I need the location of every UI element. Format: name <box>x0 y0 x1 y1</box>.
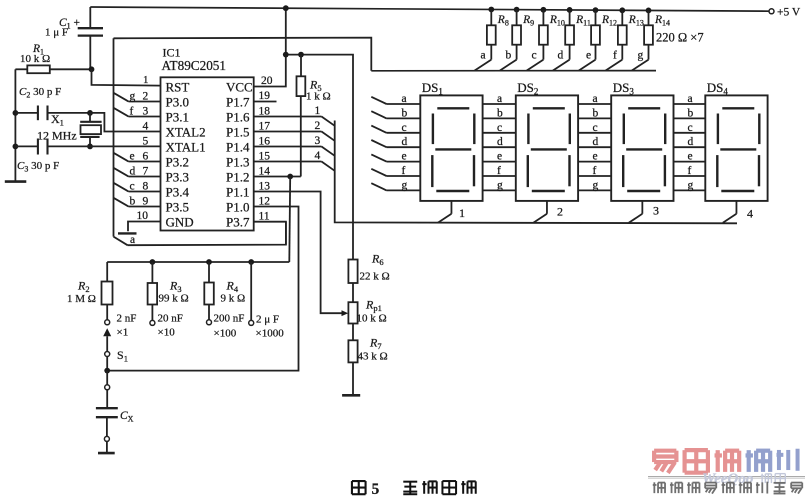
svg-text:5: 5 <box>372 481 380 498</box>
wire VCC drop from rail <box>285 8 287 54</box>
label pin 20 <box>261 75 273 87</box>
svg-text:12 MHz: 12 MHz <box>37 129 77 143</box>
display DS1 seven-segment glyph <box>432 108 474 191</box>
label IC pin name XTAL2 <box>166 124 206 139</box>
watermark char 维 <box>761 474 772 483</box>
svg-text:a: a <box>130 234 135 246</box>
watermark slogan char 和 <box>687 482 699 493</box>
wire P1.0 to S1 node <box>107 207 298 371</box>
svg-text:P3.5: P3.5 <box>166 199 189 214</box>
label 2 uF <box>256 314 279 326</box>
label IC pin name P1.1 <box>226 184 249 199</box>
wire digit 1 pin 18 <box>254 117 335 126</box>
node +5V terminal <box>769 9 774 14</box>
svg-text:12: 12 <box>259 195 271 207</box>
label DS3-DS4 segment d <box>688 136 694 148</box>
svg-text:3: 3 <box>653 204 659 218</box>
label DS1-DS2 segment a <box>497 93 502 105</box>
svg-text:e: e <box>130 150 135 162</box>
label DS4 <box>707 80 729 97</box>
label pin 17 <box>259 120 271 132</box>
svg-text:c: c <box>497 122 502 134</box>
node R10 rail junction <box>541 7 547 13</box>
label DS2-DS3 segment g <box>593 179 599 191</box>
wire DS1 segment c entry <box>371 126 420 133</box>
label 43 k-ohm <box>358 351 388 363</box>
label 22 k-ohm <box>360 271 390 283</box>
node S1 contact 2uF <box>249 320 254 325</box>
wire DS2 common <box>533 201 547 223</box>
watermark slogan char 计 <box>756 482 767 494</box>
label R12 <box>601 14 617 28</box>
wire digit 4 pin 15 <box>254 162 335 171</box>
watermark char 库 <box>775 474 785 484</box>
svg-text:C2 30 p F: C2 30 p F <box>19 86 61 100</box>
svg-text:3: 3 <box>315 135 321 147</box>
node C3 junction <box>13 144 19 150</box>
node R8 rail junction <box>488 7 494 13</box>
node S1 pole <box>105 352 110 357</box>
label segment c <box>130 180 135 192</box>
svg-text:18: 18 <box>259 105 271 117</box>
ground Cx <box>98 452 115 455</box>
label DS1 segment c <box>402 122 407 134</box>
svg-text:b: b <box>688 107 694 119</box>
svg-text:×10: ×10 <box>158 327 176 339</box>
resistor R13 <box>606 10 627 70</box>
label pin 18 <box>259 105 271 117</box>
wire DS1 segment e entry <box>371 154 420 161</box>
label DS2-DS3 segment f <box>593 165 597 177</box>
node pin14-R5 junction <box>287 174 293 180</box>
label DS3-DS4 segment c <box>688 122 693 134</box>
label pin 15 <box>259 150 271 162</box>
label DS3-DS4 segment b <box>688 107 694 119</box>
wire segment f pin 3 <box>114 108 161 117</box>
wire VCC horizontal to R6 chain <box>286 55 353 260</box>
capacitor C2 <box>15 106 90 121</box>
svg-text:d: d <box>593 136 599 148</box>
svg-text:1 M Ω: 1 M Ω <box>67 293 96 305</box>
wire segment bus left vertical <box>113 38 115 236</box>
svg-text:10: 10 <box>137 210 149 222</box>
node R1-C1-RST junction <box>89 66 95 72</box>
label 9 k-ohm <box>221 293 246 305</box>
node R14 rail junction <box>646 8 652 14</box>
label Rp1 <box>365 298 382 314</box>
label R14 <box>654 14 670 28</box>
label 99 k-ohm <box>159 293 189 305</box>
node R11 rail junction <box>567 7 573 13</box>
wire DS3-DS4 segment a <box>674 103 706 105</box>
svg-text:P3.3: P3.3 <box>166 169 189 184</box>
label R5 <box>309 78 322 94</box>
node X1 bottom junction <box>87 144 93 150</box>
wire DS1-DS2 segment a <box>483 103 516 105</box>
label pin 10 <box>137 210 149 222</box>
svg-text:1: 1 <box>459 206 465 220</box>
label IC pin name P1.4 <box>226 139 250 154</box>
wire DS1-DS2 segment d <box>483 146 516 148</box>
label 220 ohm x7 <box>656 31 704 45</box>
label segment b <box>130 195 136 207</box>
label IC pin name P1.3 <box>226 154 249 169</box>
svg-text:P3.2: P3.2 <box>166 154 189 169</box>
label DS1-DS2 segment d <box>497 136 503 148</box>
display DS3 box <box>611 95 673 200</box>
svg-text:f: f <box>497 165 501 177</box>
label DS1 segment g <box>402 179 408 191</box>
wire DS4 common <box>723 201 737 223</box>
svg-text:c: c <box>130 180 135 192</box>
label IC pin name P1.0 <box>226 199 249 214</box>
watermark slogan char 家 <box>791 483 802 494</box>
watermark slogan char 天 <box>705 483 716 494</box>
svg-text:b: b <box>593 107 599 119</box>
wire DS3-DS4 segment g <box>674 189 706 191</box>
svg-text:P3.1: P3.1 <box>166 109 189 124</box>
label DS3-DS4 segment g <box>688 179 694 191</box>
svg-text:VCC: VCC <box>226 79 253 94</box>
label IC pin name P3.7 <box>226 214 250 229</box>
label DS1-DS2 segment f <box>497 165 501 177</box>
label 10 k-ohm <box>20 53 50 65</box>
svg-text:f: f <box>130 105 134 117</box>
svg-text:22 k Ω: 22 k Ω <box>360 271 390 283</box>
wire GND pin 10 <box>128 222 161 232</box>
svg-text:11: 11 <box>259 210 270 222</box>
svg-text:99 k Ω: 99 k Ω <box>159 293 189 305</box>
crystal X1 <box>80 113 101 146</box>
svg-text:a: a <box>481 50 486 62</box>
wire C1 top to rail <box>89 7 91 28</box>
label digit 2 <box>557 205 563 219</box>
wire P3.7 pin 11 drop <box>285 222 287 245</box>
node R9 rail junction <box>514 7 520 13</box>
ground pin 10 <box>118 232 137 234</box>
wire digit 2 pin 17 <box>254 132 335 141</box>
wire P1.1 to Rp1 wiper <box>254 192 343 314</box>
svg-text:17: 17 <box>259 120 271 132</box>
label DS1 segment f <box>402 165 406 177</box>
svg-text:2 μ F: 2 μ F <box>256 314 279 326</box>
resistor R8 <box>475 9 496 70</box>
node VCC junction B <box>298 52 304 58</box>
resistor R10 <box>527 10 548 71</box>
wire DS2-DS3 segment g <box>578 189 611 191</box>
display DS3 seven-segment glyph <box>623 108 665 191</box>
capacitor C1 <box>78 28 103 69</box>
svg-text:×1: ×1 <box>117 327 129 339</box>
label IC pin name P3.1 <box>166 109 189 124</box>
label IC pin name P3.5 <box>166 199 189 214</box>
label 10 k-ohm Rp1 <box>357 313 387 325</box>
wire DS3-DS4 segment f <box>674 175 706 177</box>
node X1 top junction <box>87 110 93 116</box>
wire DS1-DS2 segment g <box>483 189 516 191</box>
svg-text:g: g <box>497 179 503 191</box>
label digit wire 3 <box>315 135 321 147</box>
label R9 <box>522 14 534 28</box>
label DS1 <box>422 80 443 97</box>
label Cx <box>120 410 134 424</box>
svg-text:2 nF: 2 nF <box>117 313 137 325</box>
wire DS1-DS2 segment e <box>483 161 516 163</box>
wire Cx to ground <box>106 441 108 452</box>
label x1000 <box>256 328 285 340</box>
label IC pin name P3.4 <box>166 184 190 199</box>
svg-text:10 k Ω: 10 k Ω <box>357 313 387 325</box>
label pin 8 <box>143 181 149 193</box>
label pin 12 <box>259 195 271 207</box>
wire S1 to junction <box>106 357 108 371</box>
wire DS3-DS4 segment e <box>674 161 706 163</box>
label pin 13 <box>259 180 271 192</box>
wire digit 3 pin 16 <box>254 147 335 156</box>
label pin 1 <box>143 74 149 86</box>
svg-text:d: d <box>497 136 503 148</box>
label caption 机 <box>422 481 436 494</box>
svg-text:AT89C2051: AT89C2051 <box>162 58 226 73</box>
label pin 6 <box>143 151 149 163</box>
svg-text:P1.7: P1.7 <box>226 94 250 109</box>
wire DS3-DS4 segment b <box>674 117 706 119</box>
wire cap bus <box>107 261 289 263</box>
label digit 4 <box>747 207 753 221</box>
svg-text:4: 4 <box>747 207 753 221</box>
wire pin 19 stub <box>254 101 277 103</box>
label 200 nF <box>214 313 245 325</box>
svg-text:d: d <box>558 50 564 62</box>
label IC pin name VCC <box>226 79 253 94</box>
label DS1-DS2 segment c <box>497 122 502 134</box>
svg-text:5: 5 <box>143 136 149 148</box>
wire junction to Cx terminal <box>106 371 108 385</box>
label pin 3 <box>143 106 149 118</box>
resistor R11 <box>553 10 574 71</box>
watermark char 培 <box>746 450 771 472</box>
wire DS2-DS3 segment b <box>578 117 611 119</box>
label x100 <box>214 328 237 340</box>
svg-text:2: 2 <box>557 205 563 219</box>
label DS2-DS3 segment e <box>593 151 598 163</box>
label digit 3 <box>653 204 659 218</box>
label R1 <box>32 43 44 57</box>
wire DS1 segment d entry <box>371 140 420 147</box>
label 12 MHz <box>37 129 77 143</box>
svg-text:9 k Ω: 9 k Ω <box>221 293 246 305</box>
svg-text:16: 16 <box>259 135 271 147</box>
svg-text:10 k Ω: 10 k Ω <box>20 53 50 65</box>
wire segment c pin 8 <box>114 183 161 192</box>
label 1 M-ohm <box>67 293 96 305</box>
label IC pin name P3.2 <box>166 154 189 169</box>
svg-text:b: b <box>130 195 136 207</box>
svg-text:43 k Ω: 43 k Ω <box>358 351 388 363</box>
label R11 <box>575 14 591 28</box>
label C2 30 pF <box>19 86 61 100</box>
ground left rail <box>5 180 27 183</box>
wire branch x1000 <box>250 262 252 320</box>
svg-text:g: g <box>402 179 408 191</box>
label x1 <box>117 327 129 339</box>
resistor R3 <box>148 262 158 320</box>
svg-text:+5 V: +5 V <box>777 7 801 19</box>
watermark slogan char 线 <box>722 482 734 493</box>
label caption 电 <box>442 481 456 494</box>
svg-text:200 nF: 200 nF <box>214 313 245 325</box>
node C2 junction <box>13 110 19 116</box>
svg-text:g: g <box>638 50 644 62</box>
svg-text:c: c <box>688 122 693 134</box>
display DS2 box <box>516 95 578 200</box>
svg-text:f: f <box>402 165 406 177</box>
svg-text:b: b <box>497 107 503 119</box>
svg-text:e: e <box>586 50 591 62</box>
label digit wire 4 <box>315 150 321 162</box>
svg-text:13: 13 <box>259 180 271 192</box>
svg-text:e: e <box>688 151 693 163</box>
display DS1 box <box>420 95 482 200</box>
op-amp U IC1 AT89C2051 box <box>161 77 254 230</box>
svg-text:b: b <box>402 107 408 119</box>
label IC pin name XTAL1 <box>166 139 206 154</box>
label R2 <box>77 279 90 295</box>
svg-text:1: 1 <box>315 105 321 117</box>
label DS3-DS4 segment a <box>688 93 693 105</box>
svg-text:a: a <box>497 93 502 105</box>
svg-text:d: d <box>130 165 136 177</box>
svg-text:2: 2 <box>315 120 321 132</box>
label S1 <box>117 348 128 364</box>
wire DS3-DS4 segment d <box>674 146 706 148</box>
svg-text:g: g <box>130 90 136 102</box>
label IC1 <box>163 45 181 59</box>
label pin 5 <box>143 136 149 148</box>
display DS4 box <box>705 95 767 200</box>
label pin 9 <box>143 196 149 208</box>
label IC pin name GND <box>166 214 194 229</box>
label DS2-DS3 segment b <box>593 107 599 119</box>
svg-text:a: a <box>593 93 598 105</box>
watermark char 拓 <box>715 450 740 472</box>
svg-text:8: 8 <box>143 181 149 193</box>
wire DS1-DS2 segment c <box>483 132 516 134</box>
label segment g <box>130 90 136 102</box>
label R13 <box>628 14 644 28</box>
label 1 uF <box>45 27 68 39</box>
wire segment a <box>114 222 286 246</box>
label caption 图 <box>352 481 366 494</box>
resistor R9 <box>500 10 521 71</box>
node cap bus R4 <box>206 259 212 265</box>
svg-text:GND: GND <box>166 214 194 229</box>
svg-text:4: 4 <box>143 121 149 133</box>
label IC pin name P1.2 <box>226 169 249 184</box>
svg-text:×100: ×100 <box>214 328 237 340</box>
watermark char 迪 <box>685 450 708 473</box>
svg-text:f: f <box>688 165 692 177</box>
label R7 <box>369 336 382 352</box>
potentiometer Rp1 <box>348 302 357 340</box>
node R12 rail junction <box>593 7 599 13</box>
wire pin 14 stub <box>254 176 301 178</box>
wire digit bus <box>335 121 737 224</box>
wire +5V top rail <box>90 7 770 11</box>
switch S1 wiper arrow <box>103 328 111 351</box>
node R13 rail junction <box>619 7 625 13</box>
label IC pin name P1.5 <box>226 124 249 139</box>
watermark char 训 <box>776 449 797 471</box>
label DS1 segment d <box>402 136 408 148</box>
wiper arrowhead <box>342 310 349 316</box>
svg-text:P1.0: P1.0 <box>226 199 249 214</box>
svg-text:P1.3: P1.3 <box>226 154 249 169</box>
svg-text:P1.6: P1.6 <box>226 109 250 124</box>
wire segment g pin 2 <box>114 93 161 102</box>
label pin 4 <box>143 121 149 133</box>
wire DS2-DS3 segment a <box>578 103 611 105</box>
node VCC junction A <box>283 52 289 58</box>
resistor R7 <box>348 340 357 395</box>
node S1 contact 20nF <box>150 320 155 325</box>
label 20 nF <box>158 313 183 325</box>
label pin 19 <box>259 90 271 102</box>
label DS1 segment b <box>402 107 408 119</box>
label R6 <box>371 252 384 268</box>
svg-text:14: 14 <box>259 165 271 177</box>
watermark slogan char 射 <box>653 482 665 493</box>
svg-text:1: 1 <box>143 74 149 86</box>
label digit wire 1 <box>315 105 321 117</box>
svg-text:20: 20 <box>261 75 273 87</box>
watermark WeeQoo <box>702 471 753 487</box>
svg-text:g: g <box>688 179 694 191</box>
wire XTAL2 pin 4 <box>90 113 161 132</box>
label DS1-DS2 segment b <box>497 107 503 119</box>
label AT89C2051 <box>162 58 226 73</box>
resistor R1 <box>15 65 91 73</box>
svg-text:d: d <box>402 136 408 148</box>
svg-text:a: a <box>402 93 407 105</box>
svg-text:1 μ F: 1 μ F <box>45 27 68 39</box>
wire DS2-DS3 segment e <box>578 161 611 163</box>
resistor R4 <box>204 262 214 320</box>
resistor R6 <box>348 260 357 303</box>
label segment a <box>130 234 135 246</box>
svg-text:e: e <box>402 151 407 163</box>
label DS3-DS4 segment e <box>688 151 693 163</box>
node S1 contact 200nF <box>207 320 212 325</box>
label DS1-DS2 segment e <box>497 151 502 163</box>
label DS3 <box>613 80 635 97</box>
node VCC rail junction <box>283 5 289 11</box>
wire VCC pin 20 <box>254 55 286 87</box>
svg-text:9: 9 <box>143 196 149 208</box>
node Cx terminal bottom <box>104 436 109 441</box>
label pin 7 <box>143 166 149 178</box>
label IC pin name P1.6 <box>226 109 250 124</box>
svg-text:d: d <box>688 136 694 148</box>
resistor R5 <box>297 55 306 177</box>
wire DS2-DS3 segment c <box>578 132 611 134</box>
svg-text:f: f <box>593 165 597 177</box>
svg-text:XTAL2: XTAL2 <box>166 124 206 139</box>
node S1 contact 2nF <box>105 320 110 325</box>
watermark char 易 <box>654 451 676 473</box>
label digit wire 2 <box>315 120 321 132</box>
label 1 k-ohm <box>306 91 331 103</box>
